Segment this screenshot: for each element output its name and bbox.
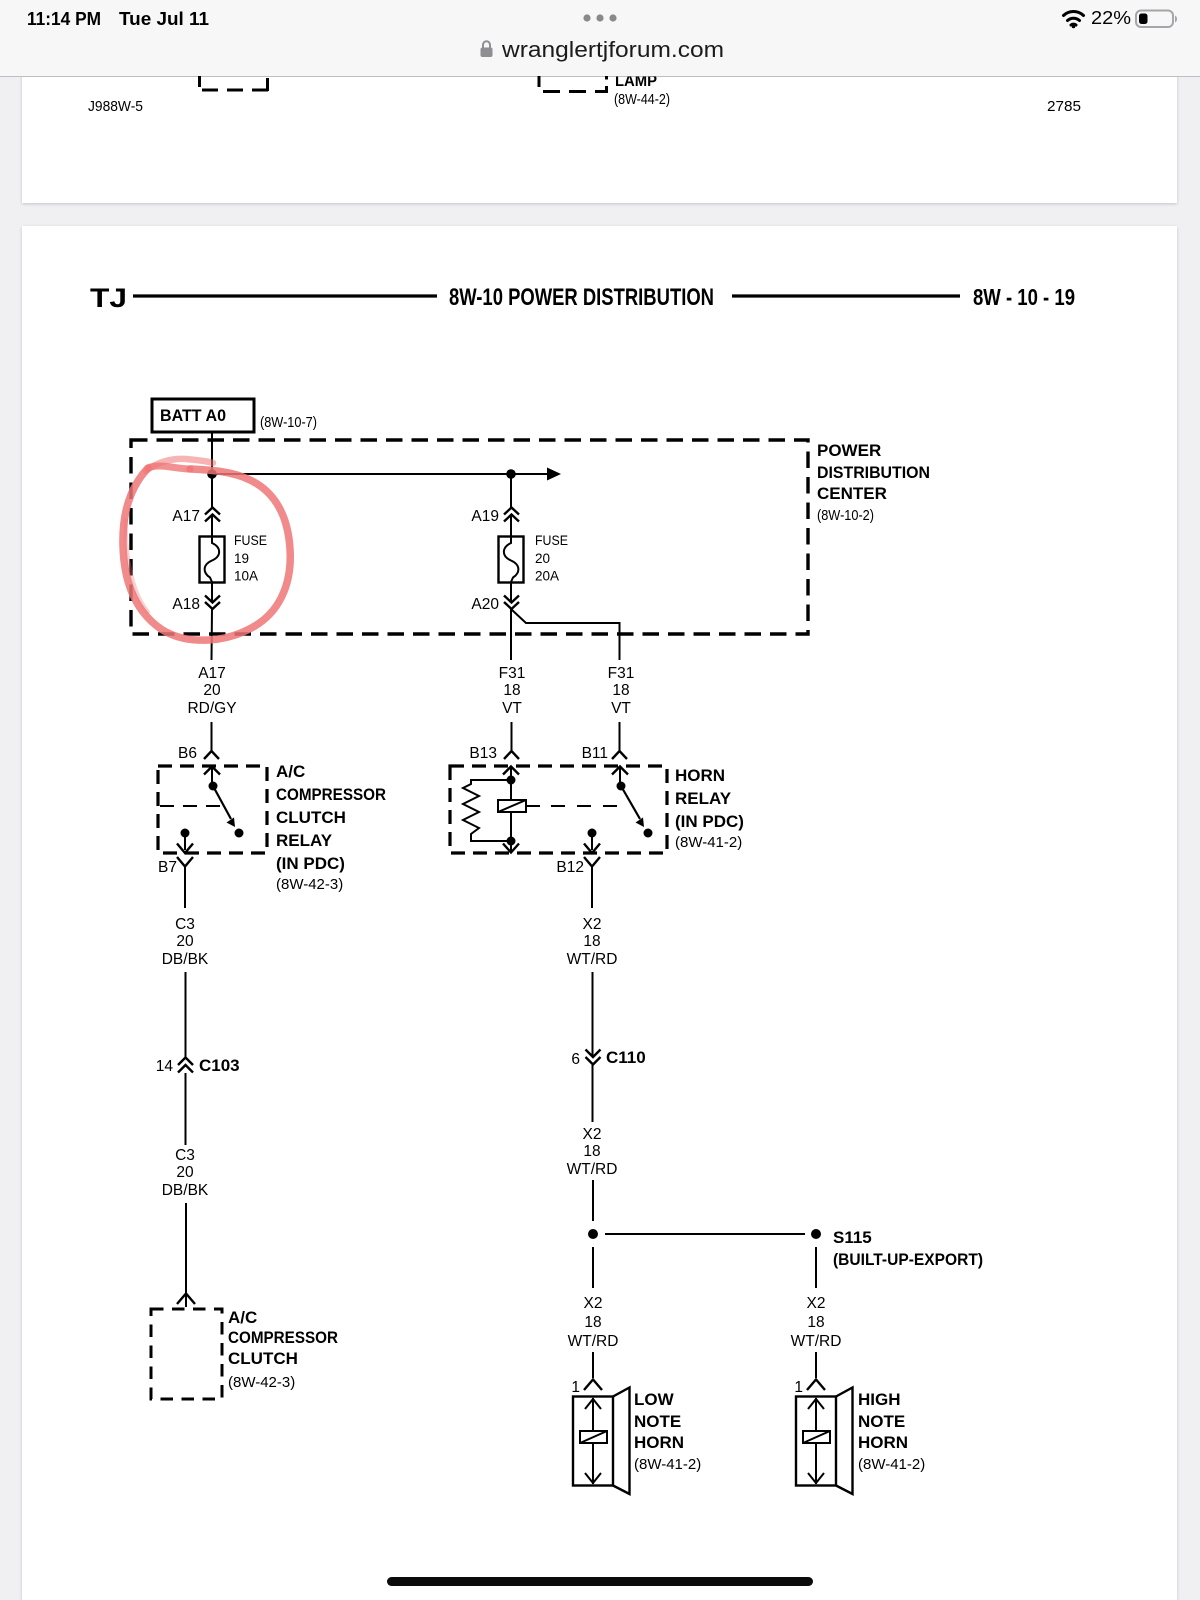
- low note horn flare: [613, 1388, 630, 1495]
- svg-text:14: 14: [156, 1058, 174, 1075]
- high note horn coil arrow: [808, 1398, 824, 1484]
- wire splice to low horn: [592, 1247, 594, 1288]
- relay pin chevrons B13 inside: [503, 767, 519, 782]
- high note horn coil box: [803, 1431, 830, 1443]
- tab ellipsis dots: [583, 14, 616, 21]
- svg-text:A19: A19: [471, 508, 499, 525]
- svg-text:18: 18: [503, 682, 520, 699]
- wire label F31 18 VT (right): [608, 665, 635, 717]
- svg-text:RD/GY: RD/GY: [187, 700, 236, 717]
- splice node dot S115: [811, 1229, 821, 1239]
- home indicator bar: [387, 1577, 813, 1586]
- svg-text:CLUTCH: CLUTCH: [228, 1349, 298, 1368]
- svg-text:FUSE: FUSE: [234, 533, 267, 548]
- svg-text:VT: VT: [502, 700, 522, 717]
- svg-text:X2: X2: [583, 1126, 602, 1143]
- wifi icon: [1064, 11, 1084, 28]
- splice node dot left: [588, 1229, 598, 1239]
- label LAMP (clipped): [615, 73, 657, 90]
- wire label X2 18 WT/RD: [791, 1295, 842, 1350]
- connector chevrons A18: [205, 596, 220, 610]
- svg-text:X2: X2: [583, 916, 602, 933]
- wire bus to A17 connector: [211, 474, 213, 508]
- svg-text:A/C: A/C: [228, 1308, 257, 1327]
- svg-text:B12: B12: [556, 859, 584, 876]
- svg-text:DB/BK: DB/BK: [162, 1182, 209, 1199]
- connector chevrons B7: [177, 837, 193, 867]
- svg-text:WT/RD: WT/RD: [568, 1333, 619, 1350]
- svg-text:RELAY: RELAY: [276, 831, 333, 850]
- svg-text:A/C: A/C: [276, 762, 305, 781]
- dashed box fragment left (prev page): [200, 76, 270, 91]
- svg-text:A20: A20: [471, 596, 499, 613]
- wire C103 down: [185, 1073, 187, 1145]
- relay coil bottom node dot: [507, 837, 516, 846]
- svg-text:C3: C3: [175, 916, 195, 933]
- svg-text:(BUILT-UP-EXPORT): (BUILT-UP-EXPORT): [833, 1250, 983, 1269]
- svg-text:1: 1: [571, 1379, 580, 1396]
- svg-text:LOW: LOW: [634, 1390, 675, 1409]
- A/C relay dashed box: [158, 766, 267, 853]
- wire A20 down: [510, 583, 512, 601]
- svg-text:F31: F31: [499, 665, 526, 682]
- connector chevrons C110: [586, 1050, 601, 1065]
- relay switch arm: [621, 786, 640, 819]
- svg-text:18: 18: [583, 1143, 600, 1160]
- svg-text:HORN: HORN: [858, 1433, 908, 1452]
- title rule right: [732, 294, 960, 297]
- relay coil box: [498, 800, 526, 812]
- svg-text:B7: B7: [158, 859, 177, 876]
- relay coil wire through: [510, 780, 512, 841]
- svg-text:C110: C110: [606, 1048, 646, 1067]
- connector chevrons A19: [504, 508, 519, 522]
- svg-text:(8W-41-2): (8W-41-2): [634, 1456, 701, 1473]
- wire down to B6: [211, 722, 213, 751]
- relay output node dot B7: [181, 829, 190, 838]
- svg-text:(IN PDC): (IN PDC): [675, 812, 744, 831]
- relay output node dot B12: [588, 829, 597, 838]
- svg-text:F31: F31: [608, 665, 635, 682]
- wire label A17 20 RD/GY: [187, 665, 236, 717]
- svg-text:A18: A18: [172, 596, 200, 613]
- node junction dot at A19: [506, 469, 516, 479]
- wire label C3 20 DB/BK lower: [162, 1147, 209, 1199]
- wire bus horizontal with arrow: [212, 473, 548, 475]
- connector chevrons B12: [584, 837, 600, 867]
- connector chevron pin 1: [807, 1380, 825, 1391]
- fuse F20 body: [499, 537, 524, 583]
- svg-text:WT/RD: WT/RD: [791, 1333, 842, 1350]
- svg-text:COMPRESSOR: COMPRESSOR: [228, 1328, 338, 1347]
- wire label X2 18 WT/RD: [568, 1295, 619, 1350]
- svg-text:20: 20: [176, 1164, 194, 1181]
- svg-text:B6: B6: [178, 745, 197, 762]
- svg-text:TJ: TJ: [90, 283, 127, 313]
- svg-text:C103: C103: [199, 1056, 240, 1075]
- wire down to horn: [592, 1352, 594, 1378]
- svg-text:S115: S115: [833, 1228, 872, 1247]
- A/C compressor clutch dashed box: [151, 1309, 222, 1399]
- svg-text:RELAY: RELAY: [675, 789, 732, 808]
- connector chevrons A17: [205, 508, 220, 522]
- power distribution center dashed box: [131, 440, 808, 634]
- fuse F19 body: [200, 537, 225, 583]
- wire label F31 18 VT (left): [499, 665, 526, 717]
- svg-text:NOTE: NOTE: [858, 1412, 905, 1431]
- svg-text:BATT A0: BATT A0: [160, 406, 226, 425]
- svg-text:C3: C3: [175, 1147, 195, 1164]
- relay actuation dashed line: [526, 805, 540, 807]
- wire B12 down: [591, 867, 593, 908]
- low note horn coil arrow: [585, 1398, 601, 1484]
- svg-text:11:14 PM: 11:14 PM: [27, 9, 101, 29]
- wire branch diagonal to second F31: [512, 610, 620, 661]
- wire bus to A19 connector: [510, 474, 512, 508]
- svg-text:(8W-41-2): (8W-41-2): [858, 1456, 925, 1473]
- high note horn body: [796, 1397, 836, 1486]
- relay contact dot: [644, 829, 653, 838]
- svg-text:X2: X2: [584, 1295, 603, 1312]
- svg-text:18: 18: [583, 933, 600, 950]
- relay actuation dashed line: [160, 805, 222, 807]
- relay switch arm: [213, 786, 231, 819]
- connector chevron pin 1: [584, 1380, 602, 1391]
- low note horn coil box: [580, 1431, 607, 1443]
- title rule left: [133, 294, 437, 297]
- svg-text:A17: A17: [198, 665, 226, 682]
- svg-text:VT: VT: [611, 700, 631, 717]
- svg-text:FUSE: FUSE: [535, 533, 568, 548]
- battery icon: [1136, 11, 1177, 28]
- svg-text:DISTRIBUTION: DISTRIBUTION: [817, 463, 930, 482]
- wire C110 down: [592, 1065, 594, 1122]
- wire down to C103: [185, 972, 187, 1057]
- svg-text:B11: B11: [582, 745, 608, 762]
- svg-text:(IN PDC): (IN PDC): [276, 854, 345, 873]
- svg-text:19: 19: [234, 551, 249, 566]
- svg-text:(8W-10-7): (8W-10-7): [260, 414, 317, 431]
- red hand-drawn circle annotation: [123, 459, 290, 640]
- svg-text:LAMP: LAMP: [615, 73, 657, 90]
- wire down to B13: [511, 722, 513, 751]
- browser status / address bar: [0, 0, 1200, 77]
- relay pin chevrons B6 inside: [204, 767, 220, 787]
- svg-text:18: 18: [807, 1314, 824, 1331]
- svg-text:(8W-10-2): (8W-10-2): [817, 507, 874, 524]
- node junction dot at A17: [207, 469, 217, 479]
- svg-text:(8W-41-2): (8W-41-2): [675, 834, 742, 851]
- svg-text:DB/BK: DB/BK: [162, 951, 209, 968]
- svg-text:(8W-42-3): (8W-42-3): [228, 1374, 295, 1391]
- svg-text:10A: 10A: [234, 569, 258, 584]
- svg-text:20: 20: [203, 682, 221, 699]
- svg-text:J988W-5: J988W-5: [88, 98, 143, 115]
- svg-text:B13: B13: [469, 745, 497, 762]
- relay switch common dot: [617, 782, 626, 791]
- svg-text:COMPRESSOR: COMPRESSOR: [276, 785, 386, 804]
- wire B7 down: [184, 867, 186, 908]
- url lock icon: [481, 41, 493, 57]
- wire label C3 20 DB/BK: [162, 916, 209, 968]
- relay common node dot: [209, 782, 218, 791]
- relay coil top node dot: [507, 776, 516, 785]
- relay coil resistor zigzag: [463, 780, 511, 841]
- svg-text:WT/RD: WT/RD: [567, 951, 618, 968]
- fuse F20 element wave: [504, 537, 519, 583]
- wire label X2 18 WT/RD: [567, 916, 618, 968]
- connector chevrons C103: [178, 1058, 193, 1073]
- wire down to A/C clutch: [185, 1203, 187, 1307]
- svg-text:(8W-44-2): (8W-44-2): [614, 91, 670, 108]
- svg-text:WT/RD: WT/RD: [567, 1161, 618, 1178]
- svg-text:2785: 2785: [1047, 98, 1081, 115]
- relay pin chevrons B11 inside: [612, 767, 628, 787]
- svg-text:wranglertjforum.com: wranglertjforum.com: [501, 37, 724, 62]
- svg-text:1: 1: [794, 1379, 803, 1396]
- svg-text:Tue Jul 11: Tue Jul 11: [119, 9, 209, 29]
- svg-text:HORN: HORN: [634, 1433, 684, 1452]
- svg-text:22%: 22%: [1091, 8, 1131, 28]
- svg-text:6: 6: [571, 1051, 580, 1068]
- connector chevrons A20: [504, 596, 519, 610]
- svg-text:HORN: HORN: [675, 766, 725, 785]
- wire down to horn: [815, 1352, 817, 1378]
- wire down to C110: [592, 972, 594, 1056]
- svg-text:8W - 10 - 19: 8W - 10 - 19: [973, 284, 1075, 310]
- svg-text:20: 20: [176, 933, 194, 950]
- svg-text:20: 20: [535, 551, 550, 566]
- horn relay dashed box: [450, 766, 667, 853]
- relay coil ground chevron inside bottom: [503, 843, 519, 853]
- svg-text:HIGH: HIGH: [858, 1390, 901, 1409]
- svg-text:CLUTCH: CLUTCH: [276, 808, 346, 827]
- connector chevron B13: [504, 751, 519, 759]
- relay contact dot: [235, 829, 244, 838]
- svg-text:18: 18: [612, 682, 629, 699]
- connector chevron B6: [204, 751, 219, 759]
- svg-text:POWER: POWER: [817, 441, 881, 460]
- wire label X2 18 WT/RD lower: [567, 1126, 618, 1178]
- high note horn flare: [836, 1388, 853, 1495]
- svg-text:X2: X2: [807, 1295, 826, 1312]
- svg-text:NOTE: NOTE: [634, 1412, 681, 1431]
- svg-text:CENTER: CENTER: [817, 484, 887, 503]
- wire A18 down out of PDC: [211, 583, 213, 601]
- svg-text:A17: A17: [172, 508, 200, 525]
- svg-text:18: 18: [584, 1314, 601, 1331]
- low note horn body: [573, 1397, 613, 1486]
- fuse F19 element wave: [205, 537, 220, 583]
- connector chevron clutch: [177, 1294, 195, 1305]
- wire down to B11: [619, 722, 621, 751]
- connector chevron B11: [612, 751, 627, 759]
- svg-text:(8W-42-3): (8W-42-3): [276, 876, 343, 893]
- svg-text:8W-10 POWER DISTRIBUTION: 8W-10 POWER DISTRIBUTION: [449, 284, 714, 311]
- wire splice to high horn: [815, 1247, 817, 1288]
- BATT A0 box: [152, 399, 254, 432]
- wire splice horizontal: [605, 1233, 805, 1235]
- dashed box fragment LAMP (prev page): [539, 76, 608, 93]
- page 1 (partial previous page): [22, 62, 1177, 203]
- wire down to splice: [592, 1180, 594, 1221]
- svg-text:20A: 20A: [535, 569, 559, 584]
- wire BATT A0 down to bus: [211, 432, 213, 474]
